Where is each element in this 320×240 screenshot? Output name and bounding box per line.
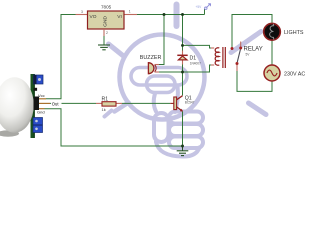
svg-text:R1: R1 [102, 96, 109, 102]
diode D1 1N4007 [177, 55, 201, 65]
svg-text:BUZZER: BUZZER [140, 55, 162, 61]
wire collector net: buzzer neg, D1 anode, Q1 collector, relay coil bottom [159, 60, 214, 95]
PIR sensor module [0, 74, 62, 138]
junction node dots [163, 13, 184, 147]
svg-text:230V AC: 230V AC [284, 71, 305, 77]
svg-text:1k: 1k [102, 107, 106, 112]
svg-text:3: 3 [81, 10, 83, 14]
svg-text:RELAY: RELAY [244, 46, 263, 52]
ground symbol under 7805 [98, 45, 110, 50]
wire Out net: PIR Out to R1 to Q1 base [50, 102, 170, 104]
ground symbol main (under Q1 emitter) [177, 146, 189, 156]
relay RL1 switch [231, 42, 263, 66]
svg-text:VI: VI [117, 14, 122, 20]
wire emitter to ground [182, 112, 184, 147]
watermark light-bulb logo [105, 5, 267, 157]
svg-text:2: 2 [106, 31, 108, 35]
svg-text:Out: Out [52, 101, 60, 106]
regulator U1 7805 [81, 5, 131, 35]
power terminal flag [196, 4, 211, 15]
svg-text:+5V: +5V [196, 5, 203, 9]
svg-text:1N4007: 1N4007 [190, 62, 201, 66]
wire AC source bottom to relay common [237, 65, 272, 91]
wire relay NO contact up and over to lamp [232, 15, 272, 48]
wire VO net: 7805 output to PIR Vcc [46, 15, 88, 99]
svg-text:GND: GND [103, 16, 109, 27]
svg-text:VO: VO [90, 14, 97, 20]
svg-text:Gnd: Gnd [37, 110, 45, 115]
svg-text:Vcc: Vcc [38, 93, 45, 98]
svg-text:LIGHTS: LIGHTS [284, 30, 304, 36]
wire 7805 GND pin down [103, 29, 105, 45]
AC source 230V [264, 65, 305, 81]
buzzer BZ1 [140, 55, 162, 74]
lamp LIGHTS [264, 24, 304, 41]
node Out (PIR pin label) [51, 102, 62, 106]
svg-text:1: 1 [129, 10, 131, 14]
svg-text:7805: 7805 [101, 5, 112, 10]
wire lamp to AC source [271, 40, 273, 65]
wire D1 cathode net: rail down, branch to relay coil top [183, 15, 215, 56]
svg-text:BC547: BC547 [185, 101, 195, 105]
transistor Q1 BC547 [170, 96, 194, 112]
resistor R1 [96, 96, 122, 112]
wire buzzer positive to rail [159, 15, 164, 65]
svg-text:5V: 5V [246, 53, 251, 57]
relay RL1 coil [215, 47, 225, 68]
wire +5V rail from 7805 VI to power flag [125, 14, 205, 16]
PIR pin stubs [39, 98, 46, 100]
wire ground net: PIR Gnd down and along bottom to ground [45, 109, 183, 146]
